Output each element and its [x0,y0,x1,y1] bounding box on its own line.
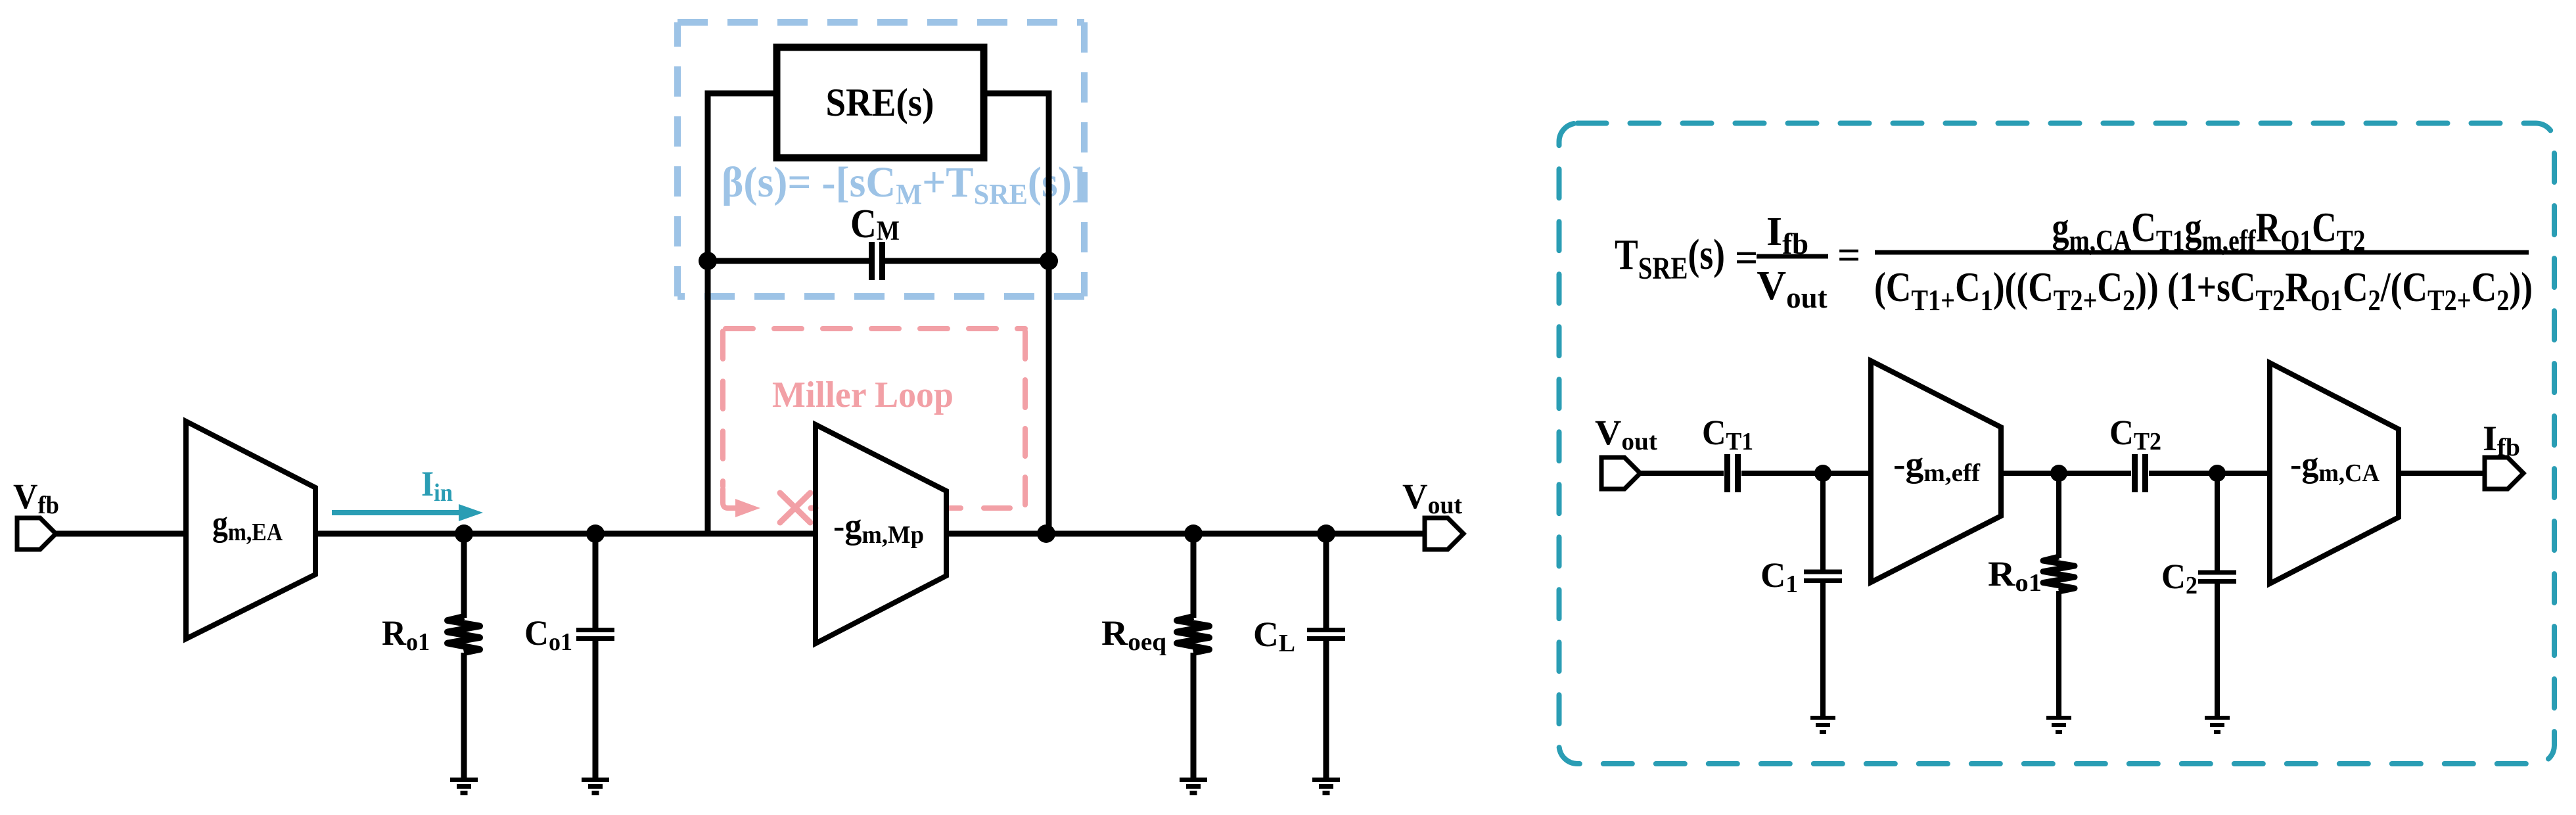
svg-text:-gm,Mp: -gm,Mp [833,506,924,549]
wire Ro1 bottom [461,653,467,778]
wire output bus [946,531,1425,537]
svg-text:CT2: CT2 [2109,413,2161,455]
svg-text:Roeq: Roeq [1101,613,1166,656]
wire CT2 to amp2 [2149,471,2270,476]
wire C1 bottom [1820,583,1826,718]
svg-text:C1: C1 [1760,555,1798,598]
svg-text:Ro1: Ro1 [1988,554,2042,597]
svg-text:Vout: Vout [1595,413,1657,455]
node CM right [1040,252,1058,270]
node H [2209,465,2226,482]
wire Co1 bottom [593,641,599,778]
capacitor Co1 [576,630,614,639]
terminal Vfb [17,518,56,549]
svg-text:CT1: CT1 [1702,413,1753,455]
svg-text:gm,CACT1gm,effRO1CT2: gm,CACT1gm,effRO1CT2 [2052,204,2366,257]
capacitor CT1 [1728,454,1738,492]
svg-text:gm,EA: gm,EA [212,503,283,546]
node F [1814,465,1831,482]
ground CL [1312,780,1340,793]
svg-text:C2: C2 [2161,557,2197,599]
wire amp1 to CT2 [2001,471,2131,476]
current arrow Iin [332,504,483,521]
svg-text:β(s)= -[sCM+TSRE(s)]: β(s)= -[sCM+TSRE(s)] [722,158,1086,210]
svg-text:Ifb: Ifb [1766,210,1808,260]
wire CM left [708,258,869,264]
wire SRE right down to output [984,93,1049,534]
capacitor C2 [2198,572,2236,582]
ground C2 [2205,718,2230,732]
wire CL top [1323,534,1329,628]
dashed box Miller Loop [723,329,1025,508]
ground Ro1 [450,780,478,793]
capacitor C1 [1804,572,1842,581]
wire Roeq bottom [1191,653,1197,778]
wire C2 top [2215,473,2220,570]
node D [1184,524,1203,543]
wire Ro1 sub top [2056,473,2061,558]
ground Ro1 sub [2046,718,2071,732]
op-amp gm,EA [186,421,315,639]
node C [1037,524,1055,543]
svg-text:TSRE(s): TSRE(s) [1615,231,1725,286]
capacitor CT2 [2135,454,2146,492]
wire Vout to CT1 [1640,471,1724,476]
node E [1317,524,1335,543]
node G [2050,465,2067,482]
Miller loop arrow [723,489,760,517]
svg-text:Miller Loop: Miller Loop [772,375,954,415]
wire Roeq top [1191,534,1197,618]
node A [455,524,473,543]
node B [586,524,605,543]
wire node A up to SRE left [708,93,777,534]
formula fraction bar small [1757,254,1828,259]
svg-text:Vfb: Vfb [13,477,59,519]
svg-text:SRE(s): SRE(s) [826,81,934,124]
wire C2 bottom [2215,584,2220,718]
ground Co1 [582,780,609,793]
wire CM right [885,258,1049,264]
dashed box beta(s) [678,22,1084,296]
svg-text:(CT1+C1)((CT2+C2)) (1+sCT2RO1C: (CT1+C1)((CT2+C2)) (1+sCT2RO1C2/(CT2+C2)… [1874,264,2533,317]
svg-text:-gm,eff: -gm,eff [1893,444,1981,487]
svg-text:Ifb: Ifb [2483,419,2520,461]
wire Co1 top [593,534,599,628]
terminal Ifb [2485,457,2523,489]
block SRE(s) [777,47,984,158]
svg-text:=: = [1735,236,1758,281]
svg-text:Vout: Vout [1402,477,1462,519]
terminal Vout [1425,518,1463,549]
svg-text:Vout: Vout [1757,264,1827,314]
wire amp2 to Ifb [2399,471,2485,476]
Miller loop cross [780,493,816,523]
op-amp -gm,Mp [816,425,946,643]
resistor Roeq [1177,617,1209,653]
resistor Ro1 [448,617,480,653]
node CM left [699,252,717,270]
wire C1 top [1820,473,1826,570]
svg-text:Ro1: Ro1 [382,613,430,656]
svg-text:Iin: Iin [421,464,453,507]
dashed rounded box TSRE [1559,124,2555,764]
svg-text:CM: CM [850,202,900,246]
wire Ro1 sub bottom [2056,591,2061,718]
ground C1 [1810,718,1835,732]
resistor Ro1 sub [2043,557,2075,592]
wire gm,EA output bus [315,531,816,537]
capacitor CM [872,242,883,280]
wire Ro1 top [461,534,467,618]
op-amp -gm,CA [2270,363,2399,584]
ground Roeq [1180,780,1207,793]
svg-text:Co1: Co1 [524,613,572,656]
wire CL bottom [1323,641,1329,778]
capacitor CL [1307,630,1345,639]
wire CT1 to amp1 [1741,471,1871,476]
svg-text:=: = [1837,233,1860,278]
terminal Vout sub [1601,457,1640,489]
op-amp -gm,eff [1871,361,2001,582]
svg-text:-gm,CA: -gm,CA [2290,444,2380,487]
formula fraction bar big [1875,250,2529,255]
wire Vfb to gm,EA [56,531,186,537]
svg-text:CL: CL [1253,615,1295,657]
